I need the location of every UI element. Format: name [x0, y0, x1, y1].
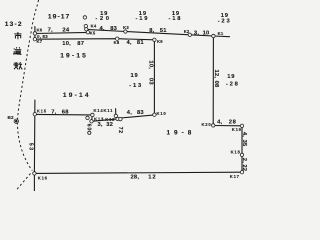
- node B2 inner: [15, 120, 17, 122]
- svg-text:13-2: 13-2: [5, 21, 23, 28]
- svg-text:60: 60: [85, 124, 91, 131]
- svg-text:68: 68: [62, 109, 69, 115]
- wire K20-K19: [213, 125, 242, 127]
- svg-text:12,: 12,: [213, 70, 219, 79]
- svg-text:7,: 7,: [48, 27, 53, 33]
- node K18: [240, 153, 243, 156]
- svg-text:-13: -13: [129, 83, 143, 89]
- wire K15-K14 (7,68): [35, 113, 93, 116]
- svg-text:81: 81: [137, 40, 144, 46]
- svg-text:K15: K15: [37, 108, 47, 113]
- kanji 敷 (laying) hand-drawn: [13, 62, 22, 69]
- svg-text:28,: 28,: [131, 175, 140, 181]
- svg-text:53: 53: [27, 143, 33, 152]
- svg-text:3,: 3,: [194, 31, 199, 37]
- wire stub above K11: [115, 109, 117, 116]
- svg-text:K1: K1: [218, 31, 224, 36]
- svg-text:K6: K6: [37, 28, 43, 33]
- svg-text:4,: 4,: [217, 119, 222, 125]
- node K16: [33, 172, 36, 175]
- node K10: [153, 113, 156, 116]
- node K20: [212, 124, 215, 127]
- svg-text:24: 24: [62, 27, 69, 33]
- node below cluster: [88, 131, 91, 134]
- svg-text:08: 08: [213, 81, 219, 88]
- svg-text:K10: K10: [157, 111, 167, 116]
- svg-text:K7: K7: [37, 39, 43, 44]
- svg-text:19: 19: [131, 73, 139, 79]
- paper background: [0, 0, 254, 191]
- svg-text:4,: 4,: [241, 132, 247, 137]
- svg-text:-18: -18: [169, 16, 183, 22]
- node K15: [33, 113, 36, 116]
- wire K16-K17 bottom boundary: [34, 172, 242, 173]
- wire K7-K8-K9: [35, 39, 154, 40]
- svg-text:83: 83: [42, 34, 48, 39]
- svg-text:19-8: 19-8: [167, 129, 196, 136]
- node K19: [240, 124, 243, 127]
- node K1: [212, 34, 215, 37]
- svg-text:4,: 4,: [127, 40, 132, 46]
- node K8: [116, 37, 119, 40]
- svg-text:K8: K8: [114, 40, 120, 45]
- svg-text:35: 35: [241, 140, 247, 147]
- node K4: [84, 24, 87, 27]
- svg-text:K13: K13: [94, 117, 104, 122]
- svg-text:7,: 7,: [51, 109, 56, 115]
- svg-text:8,: 8,: [149, 28, 154, 34]
- wire K11-K12 connector: [116, 116, 118, 119]
- svg-text:K9: K9: [157, 39, 163, 44]
- node left of cluster: [86, 116, 89, 119]
- wire K1-K20 right vertical: [212, 36, 214, 125]
- svg-text:83: 83: [137, 110, 144, 116]
- svg-text:K12: K12: [105, 117, 115, 122]
- wire K19-K18-K17: [241, 126, 243, 172]
- svg-text:K11: K11: [104, 108, 114, 113]
- svg-text:-23: -23: [218, 19, 232, 25]
- svg-text:-28: -28: [226, 82, 240, 88]
- wire K12-K10 (4,83): [120, 115, 154, 118]
- svg-text:10,: 10,: [147, 60, 153, 69]
- svg-text:87: 87: [77, 41, 84, 47]
- svg-text:K2: K2: [184, 29, 190, 34]
- svg-text:72: 72: [117, 127, 123, 134]
- svg-text:K14: K14: [94, 108, 104, 113]
- node K5: [86, 31, 89, 34]
- node K9: [153, 38, 156, 41]
- node K7: [33, 38, 36, 41]
- svg-text:19-15: 19-15: [60, 53, 88, 60]
- svg-text:3,: 3,: [98, 122, 103, 128]
- svg-text:K19: K19: [232, 127, 242, 132]
- svg-text:19: 19: [227, 74, 235, 80]
- wire K6-K5 (7,24): [35, 32, 88, 33]
- svg-text:19-14: 19-14: [63, 92, 91, 99]
- svg-text:K5: K5: [90, 30, 96, 35]
- svg-text:28: 28: [229, 119, 237, 125]
- node K12: [116, 117, 119, 120]
- kanji 道 (road) hand-drawn: [13, 47, 21, 54]
- kanji 市 (city) hand-drawn: [14, 32, 21, 39]
- wire K14-K13 connector: [91, 115, 94, 121]
- node K14: [91, 113, 94, 116]
- wire K9-K10 vertical: [153, 40, 155, 115]
- svg-text:32: 32: [106, 122, 113, 128]
- svg-text:19-17: 19-17: [48, 14, 70, 21]
- svg-text:4,: 4,: [127, 110, 132, 116]
- wire K15-K16 vertical: [33, 100, 36, 191]
- svg-text:10,: 10,: [62, 41, 71, 47]
- svg-text:B2: B2: [8, 115, 15, 120]
- svg-text:12: 12: [148, 175, 156, 181]
- svg-text:03: 03: [147, 78, 153, 85]
- road edge dashed lower branch: [16, 174, 31, 192]
- wire K6 stub and K6-K7 vertical: [34, 27, 36, 40]
- svg-text:K16: K16: [38, 175, 48, 180]
- node K11: [114, 114, 117, 117]
- svg-text:-20: -20: [95, 16, 111, 22]
- svg-text:K20: K20: [202, 122, 212, 127]
- svg-text:4,: 4,: [100, 26, 105, 32]
- wire K4-K5 connector: [86, 26, 88, 32]
- svg-text:K4: K4: [91, 23, 97, 28]
- svg-text:10: 10: [203, 31, 210, 37]
- node isolated point above K4: [83, 16, 86, 19]
- svg-text:K18: K18: [231, 150, 241, 155]
- svg-text:83: 83: [110, 26, 117, 32]
- node K2: [188, 33, 191, 36]
- node right of K12: [119, 117, 122, 120]
- road edge dashed curve upper: [17, 0, 38, 171]
- svg-text:22: 22: [241, 164, 247, 171]
- wire K4-K3-K2-K1 top boundary: [86, 29, 229, 36]
- node K3: [124, 30, 127, 33]
- svg-text:51: 51: [160, 28, 167, 34]
- svg-text:K17: K17: [230, 174, 240, 179]
- node B2 outer: [14, 119, 18, 123]
- svg-text:K3: K3: [123, 25, 129, 30]
- node between K4-K5: [85, 28, 88, 31]
- node K13: [90, 120, 93, 123]
- node K6: [33, 32, 36, 35]
- node K17: [240, 171, 243, 174]
- svg-text:-19: -19: [136, 16, 150, 22]
- svg-text:2,: 2,: [241, 158, 247, 163]
- wire K13-K12 (3,32): [92, 119, 118, 121]
